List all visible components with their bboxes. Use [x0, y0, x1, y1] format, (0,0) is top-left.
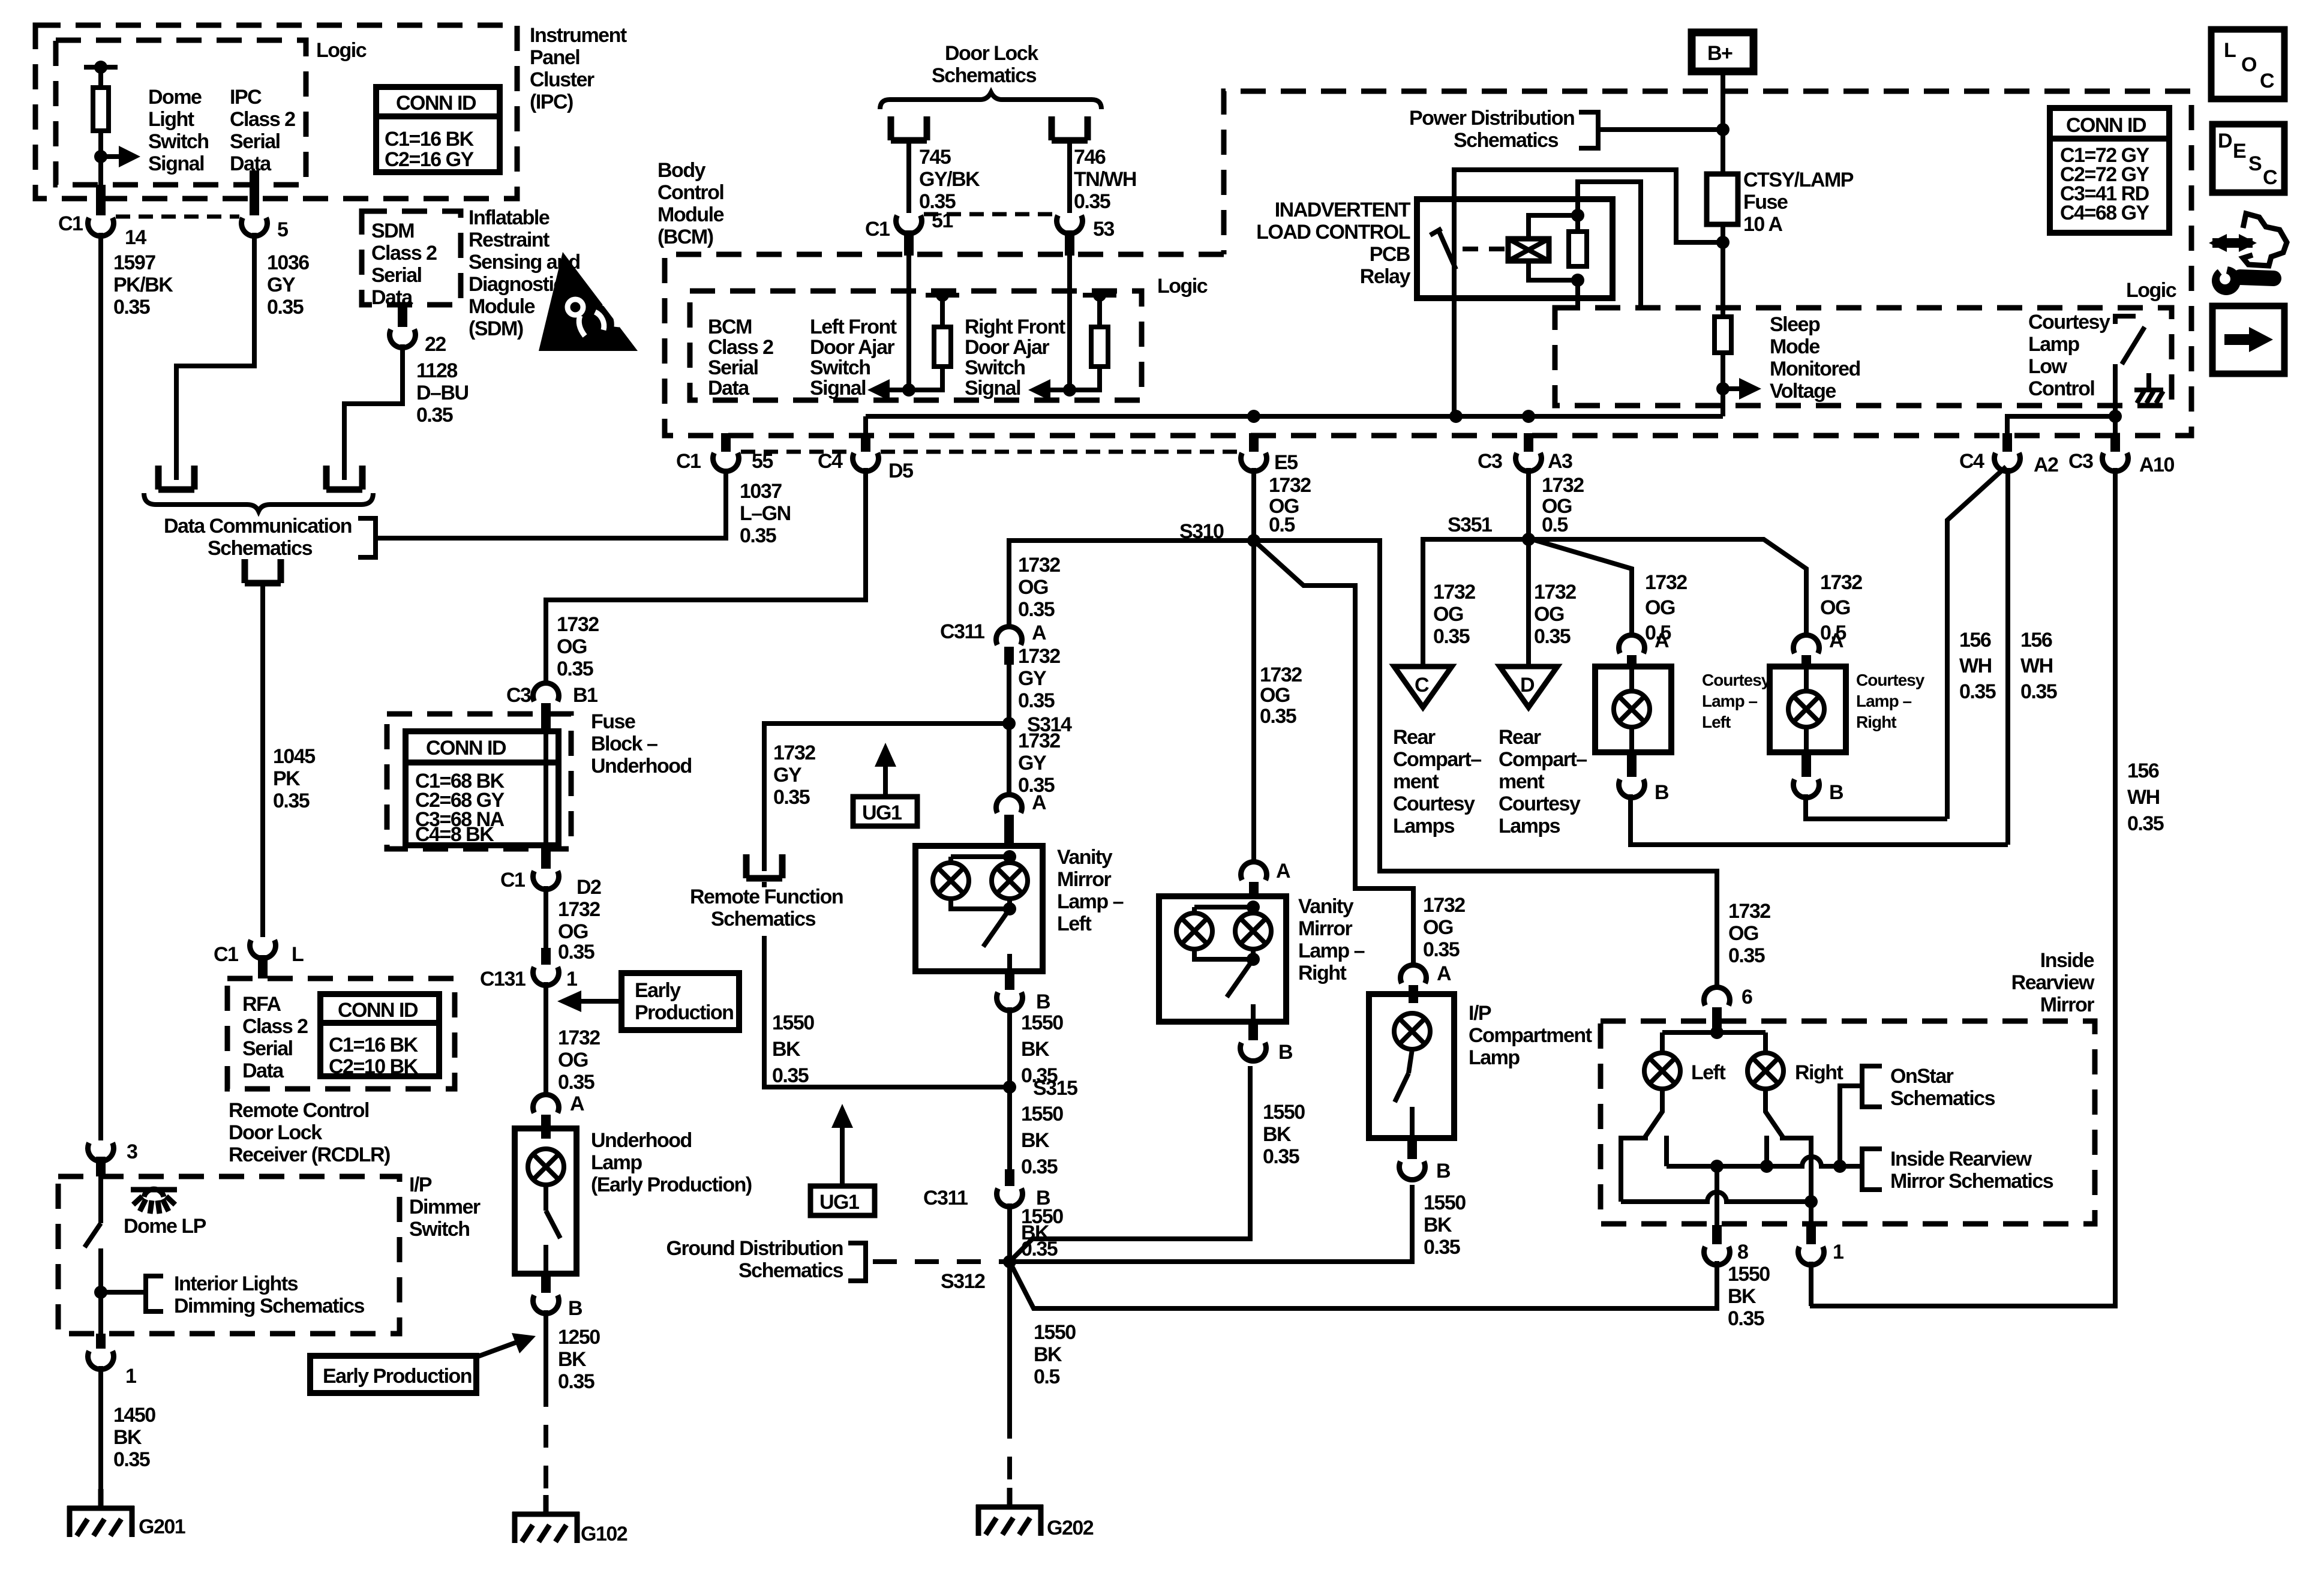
stub B1 into fuse block	[541, 703, 551, 731]
svg-text:Right Front: Right Front	[965, 316, 1065, 338]
svg-text:Courtesy: Courtesy	[1499, 792, 1581, 815]
svg-text:1037: 1037	[740, 480, 782, 503]
svg-text:Module: Module	[657, 203, 724, 226]
svg-text:TN/WH: TN/WH	[1074, 168, 1136, 191]
resistor dome light switch	[93, 88, 109, 131]
svg-text:Underhood: Underhood	[591, 755, 692, 778]
svg-text:B: B	[1036, 990, 1050, 1013]
svg-text:1045: 1045	[273, 745, 315, 768]
svg-text:Left: Left	[1057, 912, 1092, 935]
wire 1732 OG to underhood lamp	[544, 982, 548, 1094]
svg-text:S: S	[2248, 152, 2262, 175]
connector pin A courtesy right	[1794, 635, 1819, 653]
dashed wire to G102	[544, 1384, 548, 1494]
wire 1128 D-BU	[344, 344, 403, 480]
node S351	[1522, 533, 1535, 546]
LOC box	[2211, 29, 2284, 99]
courtesy lamp low control switch	[2115, 316, 2136, 324]
svg-text:Dome LP: Dome LP	[124, 1215, 206, 1238]
node: top junction	[94, 61, 107, 74]
plug door lock left	[891, 116, 927, 140]
svg-text:Mirror: Mirror	[1057, 868, 1112, 891]
svg-text:LOAD CONTROL: LOAD CONTROL	[1256, 221, 1410, 244]
stub 6 into mirror box	[1712, 1007, 1722, 1032]
stub B courtesy right	[1801, 752, 1811, 777]
svg-text:Compart–: Compart–	[1393, 748, 1481, 771]
svg-text:E: E	[2233, 140, 2246, 163]
stub C311 B	[1005, 1169, 1014, 1186]
svg-text:Lamp: Lamp	[2028, 333, 2079, 356]
svg-text:0.35: 0.35	[558, 1071, 594, 1094]
dome lamp switch wire and blade	[98, 1176, 103, 1223]
svg-text:Underhood: Underhood	[591, 1129, 692, 1152]
connector pin 6 mirror	[1704, 987, 1730, 1005]
svg-text:0.35: 0.35	[267, 296, 304, 319]
svg-text:OG: OG	[558, 1049, 588, 1071]
svg-text:C: C	[2263, 166, 2277, 189]
svg-text:OnStar: OnStar	[1890, 1065, 1954, 1088]
relay switch blade	[1439, 230, 1456, 269]
CONN ID box (BCM)	[2050, 108, 2169, 233]
stub C4 D5	[863, 416, 868, 451]
svg-text:0.35: 0.35	[558, 1370, 594, 1393]
svg-text:Door Ajar: Door Ajar	[965, 336, 1049, 359]
wire 8 drop	[1715, 1166, 1719, 1225]
svg-text:Class 2: Class 2	[242, 1015, 308, 1038]
BCM outer dashed outline	[665, 91, 2191, 436]
svg-text:CTSY/LAMP: CTSY/LAMP	[1743, 169, 1854, 191]
stub into RFA box	[258, 955, 268, 978]
svg-text:CONN ID: CONN ID	[338, 999, 418, 1022]
plug for 1036 wire	[158, 466, 194, 490]
node bus E5	[1247, 410, 1260, 423]
node S312	[1003, 1255, 1016, 1268]
svg-text:OG: OG	[1728, 922, 1758, 945]
svg-text:Door Ajar: Door Ajar	[810, 336, 894, 359]
svg-text:Ground Distribution: Ground Distribution	[666, 1237, 843, 1260]
branch to mirror 8	[1010, 1261, 1717, 1308]
svg-text:1550: 1550	[1021, 1103, 1063, 1125]
svg-text:0.35: 0.35	[113, 1448, 150, 1471]
stub 51 into BCM	[904, 230, 914, 256]
svg-text:C131: C131	[480, 968, 526, 990]
svg-text:Fuse: Fuse	[1743, 191, 1788, 214]
wire onstar branch up	[1840, 1086, 1862, 1166]
connector C3 pin B1 fuse block	[533, 683, 559, 701]
bracket interior lights	[146, 1276, 163, 1311]
svg-text:Inside: Inside	[2040, 949, 2094, 972]
node S310	[1247, 534, 1260, 547]
svg-text:1732: 1732	[1728, 900, 1770, 923]
svg-text:0.35: 0.35	[1074, 190, 1110, 213]
svg-text:0.35: 0.35	[1423, 938, 1460, 961]
svg-text:(IPC): (IPC)	[530, 91, 573, 113]
right pullup: bar, resistor	[1083, 293, 1116, 298]
svg-text:C: C	[2260, 70, 2274, 92]
connector pin B courtesy left	[1619, 779, 1645, 798]
node: arrow junction	[94, 150, 107, 163]
svg-text:I/P: I/P	[1469, 1002, 1491, 1025]
svg-text:C4=8 BK: C4=8 BK	[415, 823, 494, 846]
wire S314 to remote function plug	[764, 724, 1009, 871]
svg-text:B: B	[1278, 1041, 1293, 1064]
stub A vanity left	[1004, 815, 1014, 847]
svg-text:Left Front: Left Front	[810, 316, 897, 338]
triangle D	[1500, 667, 1557, 707]
svg-text:Rear: Rear	[1393, 726, 1436, 749]
connector pin A vanity right	[1241, 861, 1267, 880]
svg-text:B1: B1	[573, 684, 597, 707]
node bus relay output	[1449, 410, 1463, 423]
wire S351 to triangle D	[1526, 539, 1531, 667]
svg-text:Monitored: Monitored	[1770, 358, 1860, 380]
svg-text:B: B	[1436, 1160, 1451, 1182]
svg-text:I/P: I/P	[409, 1173, 432, 1196]
svg-text:Serial: Serial	[708, 356, 758, 379]
svg-text:RFA: RFA	[242, 993, 281, 1016]
svg-text:10 A: 10 A	[1743, 213, 1783, 236]
svg-text:(Early Production): (Early Production)	[591, 1173, 752, 1196]
wire: IPC pin 14 stub	[96, 185, 106, 215]
connector pin 8 mirror	[1704, 1247, 1730, 1265]
svg-text:1: 1	[1833, 1241, 1843, 1263]
connector C3 pin A3	[1516, 453, 1542, 472]
svg-text:OG: OG	[558, 920, 588, 943]
svg-text:GY: GY	[773, 764, 802, 786]
svg-text:Early Production: Early Production	[323, 1365, 472, 1388]
UG1 box 1	[853, 797, 917, 826]
ground G102	[512, 1495, 580, 1543]
connector pin B courtesy right	[1794, 779, 1819, 798]
node bottom right	[1804, 1195, 1818, 1208]
svg-text:1732: 1732	[1018, 730, 1060, 752]
plug for 1128 wire	[326, 466, 362, 490]
svg-text:0.35: 0.35	[1728, 1307, 1764, 1330]
svg-text:1: 1	[125, 1365, 136, 1388]
courtesy low control node	[2109, 410, 2122, 423]
svg-text:Left: Left	[1691, 1061, 1726, 1084]
svg-text:1732: 1732	[558, 898, 600, 921]
svg-text:B: B	[1655, 781, 1669, 804]
svg-text:Relay: Relay	[1360, 265, 1411, 288]
stub 53 into BCM	[1065, 230, 1074, 256]
svg-text:1732: 1732	[1269, 474, 1311, 497]
connector pin B vanity right	[1241, 1043, 1266, 1061]
mirror lamp left bulb	[1644, 1053, 1680, 1089]
svg-text:GY: GY	[1018, 667, 1047, 690]
svg-text:C1: C1	[865, 218, 890, 241]
node S315	[1003, 1080, 1016, 1094]
svg-text:OG: OG	[1260, 684, 1290, 707]
svg-text:Lamp –: Lamp –	[1702, 692, 1757, 710]
svg-text:Right: Right	[1298, 962, 1347, 984]
svg-text:0.5: 0.5	[1269, 514, 1295, 536]
wire B+ down to fuse	[1721, 73, 1725, 174]
node right door ajar junction	[1063, 383, 1076, 397]
svg-text:C4: C4	[1959, 450, 1984, 473]
connector pin B IP lamp	[1400, 1161, 1425, 1180]
wire A2 diagonal 156 WH	[1947, 467, 2006, 819]
svg-text:Dimmer: Dimmer	[409, 1196, 481, 1218]
wire S310 diagonal to IP lamp drop	[1254, 541, 1413, 965]
svg-text:Cluster: Cluster	[530, 68, 594, 91]
sleep resistor	[1715, 317, 1731, 353]
svg-text:Data: Data	[708, 377, 750, 400]
svg-text:UG1: UG1	[819, 1191, 859, 1214]
svg-text:14: 14	[125, 226, 146, 249]
svg-text:Lamps: Lamps	[1499, 815, 1560, 837]
stub A courtesy right	[1801, 655, 1811, 669]
svg-text:S351: S351	[1448, 514, 1492, 536]
svg-text:C311: C311	[940, 620, 984, 643]
svg-text:GY/BK: GY/BK	[919, 168, 980, 191]
stub B vanity left	[1005, 971, 1014, 990]
svg-text:Schematics: Schematics	[1890, 1087, 1995, 1110]
Early Production callout box 1	[621, 973, 739, 1030]
svg-text:(SDM): (SDM)	[469, 317, 523, 340]
connector C1 pin 5 of IPC	[242, 218, 268, 236]
wire D5 to fuse block B1	[546, 468, 866, 682]
svg-text:BK: BK	[1021, 1038, 1050, 1061]
wire 1045 PK	[260, 580, 265, 937]
svg-text:Compartment: Compartment	[1469, 1024, 1592, 1047]
svg-text:IPC: IPC	[230, 86, 262, 109]
svg-text:Logic: Logic	[1157, 275, 1208, 298]
svg-text:WH: WH	[2127, 786, 2160, 809]
svg-text:1550: 1550	[1021, 1011, 1063, 1034]
svg-text:A2: A2	[2034, 454, 2058, 476]
stub B vanity right	[1248, 1022, 1258, 1040]
svg-text:Panel: Panel	[530, 46, 580, 69]
svg-text:G102: G102	[581, 1523, 627, 1545]
svg-text:0.35: 0.35	[558, 941, 594, 963]
svg-text:OG: OG	[1534, 603, 1564, 626]
svg-text:D5: D5	[888, 460, 913, 482]
node power distribution tap	[1716, 123, 1730, 136]
wire S310 down to vanity right A	[1251, 541, 1256, 862]
arrow box	[2212, 306, 2284, 374]
svg-text:A: A	[1655, 629, 1669, 652]
svg-text:A: A	[1032, 791, 1046, 814]
connector pin B underhood lamp	[533, 1295, 559, 1314]
mirror right switch	[1765, 1089, 1811, 1202]
relay shunt resistor	[1569, 232, 1587, 266]
arrow right door ajar	[1047, 388, 1070, 392]
svg-text:1732: 1732	[1820, 571, 1862, 594]
branch to vanity right B	[1010, 1066, 1250, 1262]
wire S315 to remote function plug	[764, 882, 1010, 1087]
IP compartment lamp box	[1369, 994, 1454, 1138]
svg-text:Production: Production	[635, 1001, 733, 1024]
svg-text:D2: D2	[577, 876, 601, 899]
mirror left switch	[1621, 1089, 1667, 1202]
svg-text:Module: Module	[469, 295, 535, 318]
svg-text:0.35: 0.35	[1018, 689, 1055, 712]
svg-text:A: A	[1829, 629, 1843, 652]
fuse block dashed box	[387, 714, 571, 849]
wire 1597 PK/BK down left side	[98, 233, 103, 1140]
svg-text:CONN ID: CONN ID	[396, 92, 476, 115]
svg-text:Vanity: Vanity	[1057, 846, 1113, 869]
arrow left door ajar	[887, 388, 909, 392]
svg-text:C3: C3	[506, 684, 531, 707]
svg-text:BK: BK	[113, 1426, 142, 1449]
connector C1 pin 55	[721, 433, 731, 452]
svg-text:Mode: Mode	[1770, 335, 1819, 358]
connector C1 pin L of RCDLR	[250, 940, 276, 959]
stub B courtesy left	[1627, 752, 1637, 777]
svg-text:0.35: 0.35	[1424, 1236, 1460, 1259]
svg-text:D: D	[2218, 130, 2232, 152]
RFA dashed box	[227, 978, 455, 1089]
wire courtesy lamps return loop	[1631, 794, 2008, 845]
stub below 3	[96, 1157, 106, 1176]
svg-text:0.35: 0.35	[1534, 625, 1571, 648]
svg-text:156: 156	[2127, 760, 2159, 782]
svg-text:0.35: 0.35	[772, 1064, 809, 1087]
svg-text:E5: E5	[1274, 451, 1298, 474]
UG1 box 2	[810, 1186, 875, 1215]
wire S310 left to C311 A drop	[1009, 541, 1254, 626]
underhood lamp box	[515, 1128, 577, 1274]
CONN ID box (fuse block)	[406, 731, 559, 846]
svg-text:0.35: 0.35	[557, 658, 593, 680]
svg-text:156: 156	[1959, 629, 1991, 652]
connector pin 1 bottom left	[88, 1351, 114, 1370]
stub A3	[1524, 433, 1533, 452]
svg-text:0.35: 0.35	[1260, 705, 1296, 728]
svg-text:B+: B+	[1707, 42, 1733, 65]
svg-text:OG: OG	[1433, 603, 1463, 626]
IP lamp switch	[1395, 1049, 1412, 1138]
arrow sleep monitored voltage	[1723, 386, 1743, 391]
svg-text:0.35: 0.35	[1433, 625, 1470, 648]
svg-text:Interior Lights: Interior Lights	[174, 1272, 298, 1295]
BCM inner logic dashed box	[690, 291, 1142, 400]
node mirror feed split	[1710, 1026, 1724, 1039]
svg-text:Receiver (RCDLR): Receiver (RCDLR)	[229, 1143, 390, 1166]
svg-text:S312: S312	[941, 1270, 985, 1293]
mirror middle common wire with hop over right vertical	[1667, 1157, 1862, 1166]
svg-text:C3: C3	[1478, 450, 1502, 473]
svg-text:Lamp –: Lamp –	[1298, 939, 1365, 962]
mirror bottom common wire with hop over 8 wire	[1621, 1192, 1811, 1202]
svg-text:1250: 1250	[558, 1326, 600, 1349]
svg-text:0.35: 0.35	[416, 404, 453, 427]
svg-text:BK: BK	[1728, 1285, 1756, 1308]
svg-text:C311: C311	[923, 1187, 968, 1209]
svg-text:Early: Early	[635, 979, 681, 1002]
svg-text:UG1: UG1	[862, 801, 902, 824]
node middle-8 tap	[1710, 1160, 1724, 1173]
arrow: dome light switch signal	[101, 154, 124, 159]
svg-text:Signal: Signal	[810, 377, 866, 400]
svg-text:G201: G201	[139, 1515, 185, 1538]
dome lamp rays icon	[131, 1189, 177, 1214]
svg-text:Class 2: Class 2	[708, 336, 773, 359]
svg-text:22: 22	[425, 333, 446, 356]
svg-text:1128: 1128	[416, 359, 457, 382]
svg-text:L: L	[2224, 39, 2236, 62]
svg-text:Light: Light	[148, 108, 194, 131]
wire 1 to A10 loop	[1809, 1262, 1813, 1306]
IPC outer dashed box	[35, 25, 517, 199]
svg-text:OG: OG	[557, 635, 587, 658]
main feed bus inside BCM	[866, 414, 1723, 419]
connector C1 pin 51 of BCM	[896, 215, 922, 234]
svg-text:5: 5	[277, 218, 288, 241]
svg-text:1597: 1597	[113, 251, 155, 274]
svg-text:1732: 1732	[558, 1026, 600, 1049]
bracket ground distribution	[848, 1243, 866, 1281]
svg-text:Signal: Signal	[148, 152, 204, 175]
wrench icon	[2212, 260, 2274, 295]
svg-text:GY: GY	[1018, 752, 1047, 775]
svg-text:Dome: Dome	[148, 86, 202, 109]
svg-text:L: L	[292, 943, 304, 966]
wires to mirror lamps	[1662, 1032, 1765, 1052]
svg-text:1732: 1732	[773, 742, 815, 764]
relay box	[1417, 199, 1613, 298]
vanity mirror lamp right box	[1159, 896, 1286, 1022]
svg-text:Schematics: Schematics	[711, 908, 816, 930]
connector pin A courtesy left	[1619, 635, 1645, 653]
svg-text:A10: A10	[2139, 454, 2174, 476]
svg-text:OG: OG	[1018, 576, 1048, 599]
arrow UG1 box 1	[883, 764, 888, 797]
wire 1036 GY	[176, 233, 254, 480]
svg-text:WH: WH	[2020, 655, 2053, 677]
branch to IP lamp B	[1010, 1185, 1412, 1262]
svg-text:53: 53	[1093, 218, 1114, 241]
svg-text:B: B	[1829, 781, 1843, 804]
wire 1 drop	[1809, 1202, 1813, 1225]
svg-text:Signal: Signal	[965, 377, 1020, 400]
connector dashed line C4-E5	[881, 450, 1239, 454]
wire A2 straight 156 WH	[2005, 468, 2010, 845]
svg-text:Serial: Serial	[242, 1037, 293, 1060]
svg-text:1732: 1732	[1018, 554, 1060, 577]
wire 1250 BK	[544, 1310, 548, 1384]
arrow early production 1	[579, 999, 621, 1004]
svg-text:1732: 1732	[1423, 894, 1465, 917]
wire S312 down	[1007, 1262, 1012, 1416]
wire from fuse node to relay switch feed	[1454, 170, 1723, 415]
svg-text:Schematics: Schematics	[738, 1259, 843, 1282]
wire 746 TN/WH	[1067, 141, 1072, 213]
wire through fuse block	[544, 731, 548, 845]
connector C131 pin 1	[533, 967, 559, 986]
connector C311 pin B	[997, 1188, 1023, 1207]
svg-text:Diagnostic: Diagnostic	[469, 273, 564, 296]
connector C3 pin A10	[2103, 453, 2128, 472]
wire 1732 GY to S314	[1007, 665, 1011, 724]
brace data communication	[144, 493, 373, 511]
node middle right tick	[1760, 1160, 1773, 1173]
svg-text:Mirror: Mirror	[2040, 993, 2095, 1016]
svg-text:Lamp –: Lamp –	[1856, 692, 1911, 710]
svg-text:Inside Rearview: Inside Rearview	[1890, 1148, 2032, 1170]
svg-text:C: C	[1415, 674, 1429, 697]
svg-text:Vanity: Vanity	[1298, 895, 1354, 918]
svg-text:0.35: 0.35	[1018, 598, 1055, 621]
svg-text:PCB: PCB	[1370, 243, 1410, 266]
connector C1 pin D2 fuse block	[533, 871, 559, 890]
courtesy left bulb	[1614, 691, 1650, 727]
svg-text:Right: Right	[1856, 713, 1896, 731]
svg-text:0.5: 0.5	[1542, 514, 1568, 536]
stub D2	[541, 845, 551, 869]
